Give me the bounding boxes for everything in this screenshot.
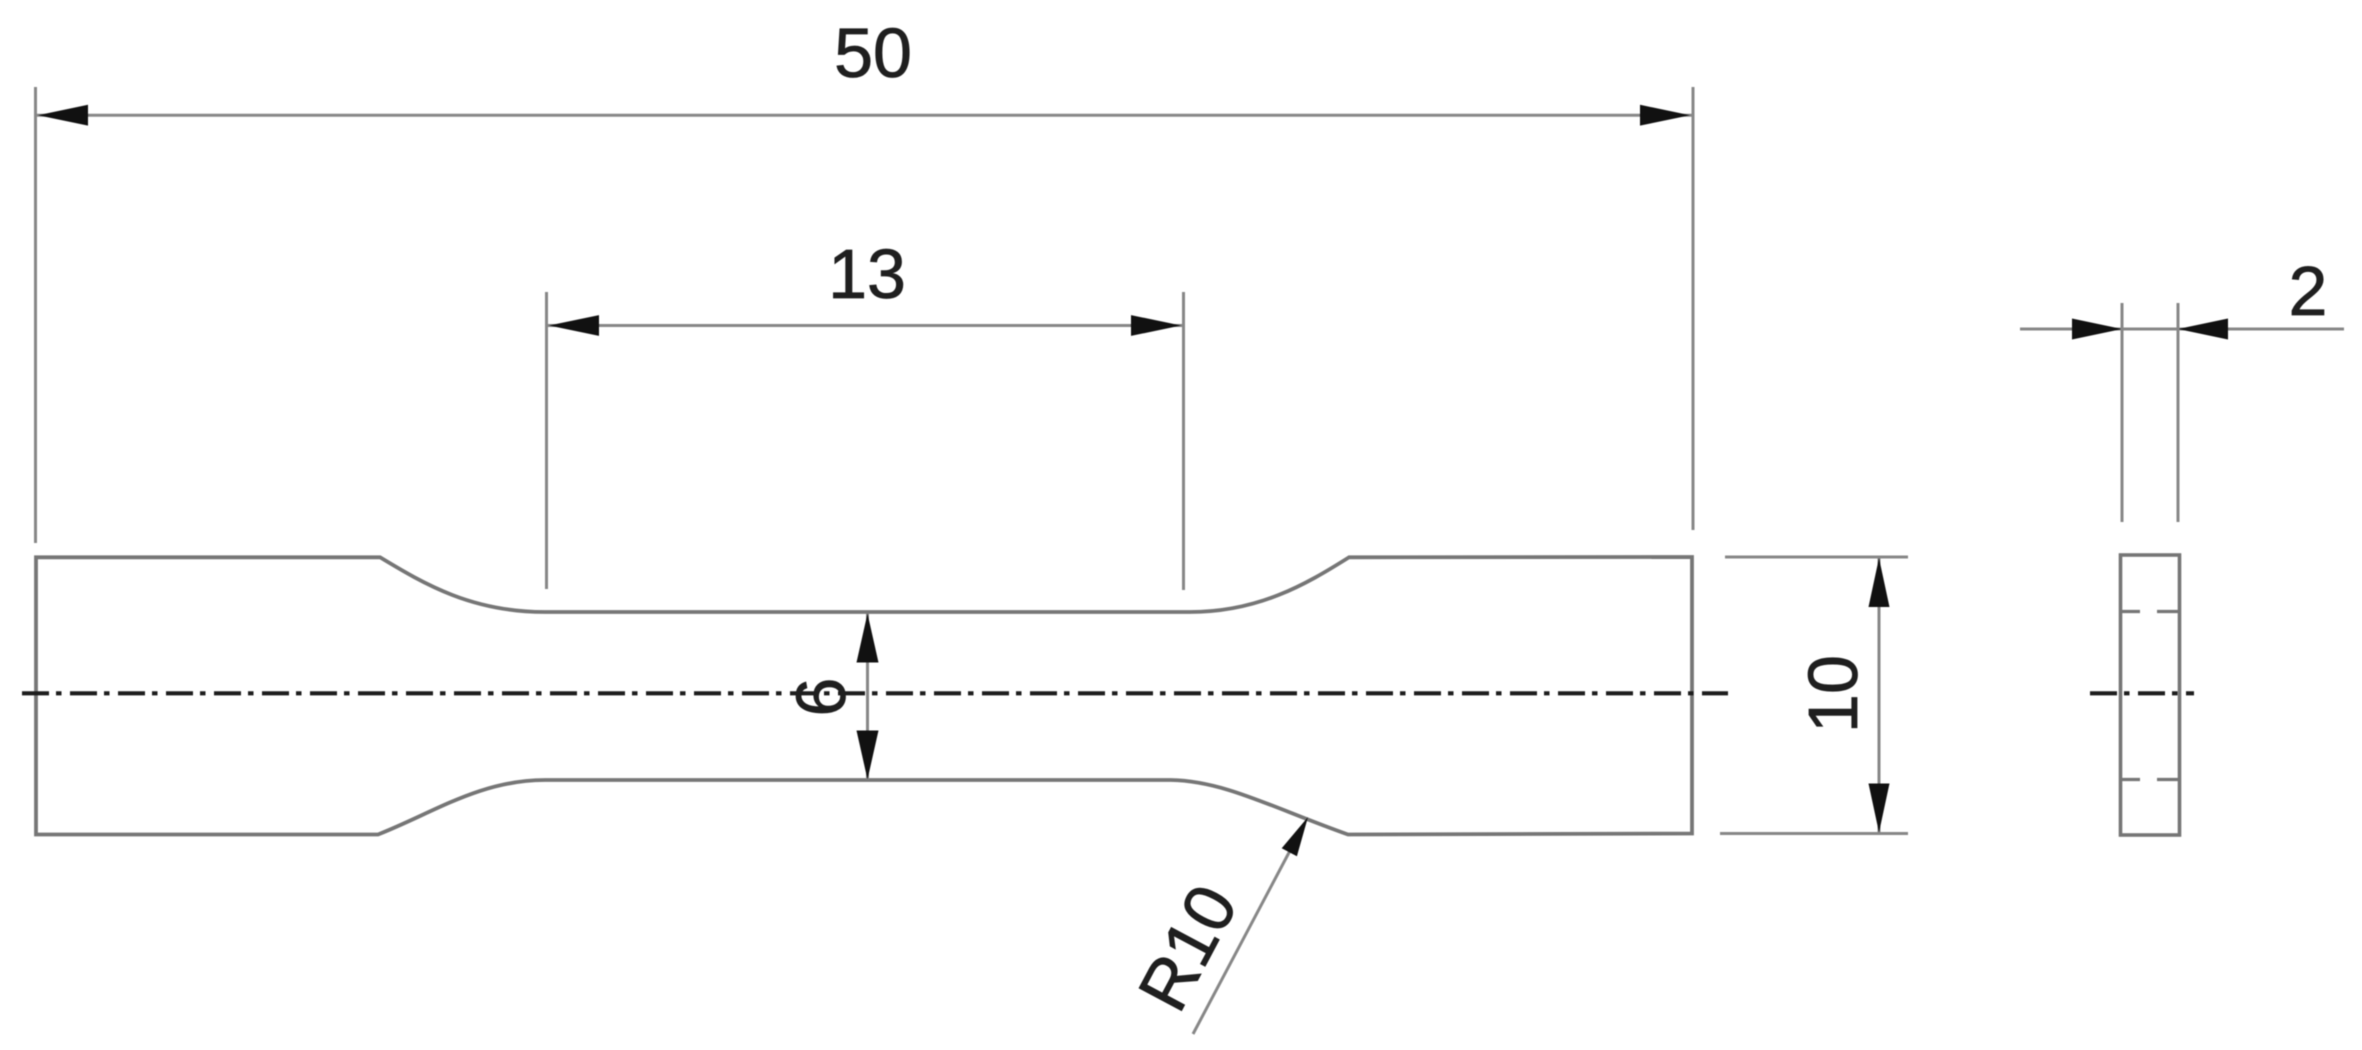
svg-text:50: 50 [834, 14, 912, 92]
svg-text:10: 10 [1794, 655, 1872, 733]
svg-text:13: 13 [828, 235, 906, 313]
svg-text:6: 6 [782, 678, 860, 717]
svg-text:2: 2 [2289, 252, 2328, 330]
